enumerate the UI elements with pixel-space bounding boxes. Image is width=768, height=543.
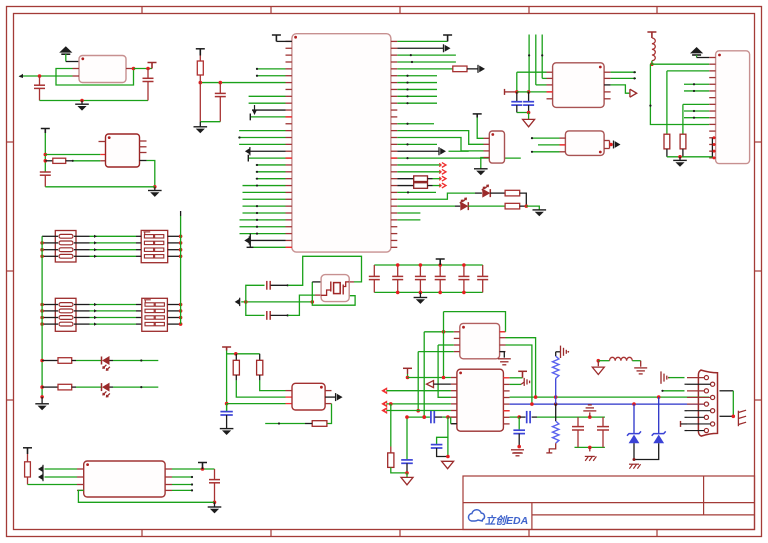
wire U8 loop — [444, 312, 506, 332]
chassis ground — [629, 463, 639, 465]
junction — [40, 359, 44, 363]
power flag VCC — [59, 46, 72, 52]
node — [406, 75, 408, 77]
mcu U4 — [292, 34, 391, 252]
ground — [194, 126, 208, 128]
wire R6 bottom lead — [235, 375, 237, 380]
ground — [208, 506, 222, 508]
wire top vertical — [541, 35, 543, 79]
wire — [250, 150, 286, 152]
pin U8 right — [500, 344, 506, 346]
crystal X1 symbol — [330, 282, 332, 292]
border tick bottom — [270, 530, 272, 537]
wire gnd stem — [679, 157, 681, 161]
wire — [685, 383, 688, 385]
wire — [397, 75, 437, 77]
wire — [433, 185, 442, 187]
wire U9 r2 — [510, 383, 521, 385]
wire LED A feed — [397, 193, 475, 199]
capacitor C7 — [266, 311, 268, 320]
junction — [438, 291, 442, 295]
capacitor C15 blue — [513, 429, 525, 431]
wire — [520, 193, 527, 206]
wire — [468, 205, 505, 207]
junction — [588, 446, 592, 450]
wire — [397, 54, 456, 56]
wire row into RN — [136, 323, 141, 325]
wire — [681, 423, 688, 425]
wire C8 bottom lead — [226, 415, 228, 429]
crystal X1 box — [321, 275, 349, 302]
pin U2.1 — [99, 141, 106, 143]
wire — [45, 476, 78, 478]
wire xtal up branch — [246, 285, 265, 302]
wire U4.1 — [276, 40, 292, 42]
pin J1 — [709, 90, 715, 92]
pin J1 — [709, 103, 715, 105]
junction — [40, 316, 44, 320]
net flag — [403, 367, 412, 369]
border tick bottom — [528, 530, 530, 537]
wire shell b — [720, 415, 734, 417]
pin U8 left — [454, 351, 460, 353]
wire row into RN — [136, 249, 141, 251]
wire — [239, 130, 285, 132]
wire — [589, 447, 591, 451]
wire — [542, 77, 546, 79]
pin U6 right — [604, 77, 611, 79]
pin U9 left — [451, 383, 457, 385]
junction — [234, 352, 238, 356]
wire vC — [438, 345, 451, 397]
wire row into RN — [136, 310, 141, 312]
wire — [528, 113, 530, 120]
pin J1 — [709, 63, 715, 65]
net flag — [436, 258, 445, 260]
wire — [450, 417, 452, 424]
pin J1 — [709, 57, 715, 59]
wire — [113, 386, 158, 388]
resistor R — [505, 203, 520, 209]
node arrow — [94, 323, 97, 326]
node — [278, 422, 280, 424]
pin lead — [448, 416, 457, 418]
pin U4 right — [391, 246, 397, 248]
pin J1 — [709, 157, 715, 159]
wire — [526, 206, 539, 210]
wire — [397, 178, 413, 180]
junction — [179, 322, 183, 326]
title block outline — [463, 476, 755, 530]
wire R1 right lead — [66, 160, 74, 162]
node — [191, 483, 193, 485]
resistor R1 — [53, 158, 66, 163]
wire — [76, 360, 102, 362]
zener D5 — [627, 431, 641, 435]
capacitor C12 blue — [430, 411, 432, 423]
earth ground rotated — [660, 371, 662, 383]
pin U3 right — [165, 489, 172, 491]
junction — [678, 155, 682, 159]
ground — [148, 190, 162, 192]
wire U3 out1 — [172, 468, 215, 470]
thermistor RT1 — [553, 356, 559, 378]
wire — [475, 192, 482, 194]
wire row into RN — [136, 242, 141, 244]
node hook — [19, 74, 23, 78]
node arrow — [94, 241, 97, 244]
earth ground — [498, 358, 511, 360]
node — [256, 164, 258, 166]
junction — [44, 153, 48, 157]
pin U4 left — [286, 198, 292, 200]
wire gnd pin — [712, 143, 715, 145]
earth extra bar — [512, 452, 523, 454]
junction — [179, 316, 183, 320]
port arrow — [38, 474, 43, 480]
pin text — [503, 410, 509, 412]
wire row mid green — [90, 242, 137, 244]
ground — [414, 297, 428, 299]
junction — [179, 254, 183, 258]
junction — [40, 254, 44, 258]
pin U4 right — [391, 40, 397, 42]
pin U9 right — [503, 416, 509, 418]
wire row mid green — [90, 317, 137, 319]
wire C10 lead — [528, 105, 530, 112]
junction — [442, 330, 446, 334]
resistor R3 — [197, 61, 203, 75]
pin text — [500, 331, 506, 333]
pin U4 right — [391, 157, 397, 159]
power flag gnd — [523, 119, 535, 126]
pin U4 left — [286, 212, 292, 214]
wire R to LED — [72, 386, 76, 388]
junction — [462, 263, 466, 267]
border tick right — [755, 399, 762, 401]
net flag — [443, 34, 452, 36]
wire cap gnd link — [517, 112, 529, 114]
pin U4 left — [286, 82, 292, 84]
resistor RN1.2 — [59, 241, 73, 245]
wire — [172, 489, 193, 491]
net flag bar — [504, 89, 506, 95]
net flag — [222, 346, 231, 348]
junction — [40, 303, 44, 307]
wire down — [447, 417, 449, 456]
wire C10 lead — [528, 92, 530, 102]
ic U6 — [553, 63, 605, 108]
port arrow — [335, 393, 337, 401]
junction — [405, 471, 409, 475]
wire shell — [720, 390, 734, 392]
wire — [538, 144, 560, 146]
wire row right — [168, 249, 181, 251]
junction — [438, 263, 442, 267]
ground — [35, 403, 49, 405]
node — [287, 314, 289, 316]
wire U6.1 — [517, 71, 547, 73]
wire C1 top lead — [39, 76, 41, 85]
wire — [685, 410, 688, 412]
wire shell v — [732, 391, 734, 417]
junction — [527, 90, 531, 94]
port arrow — [477, 65, 479, 73]
port arrow — [438, 147, 440, 155]
node — [406, 157, 408, 159]
wire — [532, 416, 537, 418]
border tick bottom — [141, 530, 143, 537]
pin J1 — [709, 123, 715, 125]
node arrow — [94, 303, 97, 306]
border tick top — [528, 7, 530, 14]
pin U2.3 — [100, 160, 105, 162]
pin U4 right — [391, 205, 397, 207]
pin J2.7 — [704, 415, 708, 419]
pin U4 left — [286, 191, 292, 193]
pin U4 left — [286, 233, 292, 235]
pin U2.2 — [100, 154, 105, 156]
wire C15 net — [518, 417, 520, 430]
wire U6 r3 — [604, 84, 611, 86]
wire gnd stem — [154, 187, 156, 191]
wire gnd stem — [81, 101, 83, 105]
wire xtal main — [241, 301, 312, 303]
wire gnd stem — [419, 292, 421, 297]
wire cap rail top — [374, 264, 482, 266]
pin U4 left — [286, 246, 292, 248]
ground — [533, 209, 547, 211]
junction — [530, 402, 534, 406]
wire xtal top loop — [288, 256, 362, 285]
capacitor C5 — [215, 92, 226, 94]
resistor RN1.1 — [59, 234, 73, 238]
wire R10 bottom — [682, 149, 684, 157]
junction — [201, 467, 205, 471]
wire cap lead — [463, 280, 465, 293]
wire row mid1 — [74, 304, 90, 306]
pin U5 — [484, 137, 490, 139]
border tick left — [7, 141, 14, 143]
resistor RN3.1 — [59, 303, 73, 307]
wire — [598, 360, 609, 362]
wire gnd link — [667, 156, 713, 158]
wire bottom loop — [78, 490, 214, 502]
wire to U2 — [44, 133, 46, 172]
wire — [397, 82, 437, 84]
ground — [474, 168, 488, 170]
wire — [270, 284, 288, 286]
pin U4 left — [286, 102, 292, 104]
wire — [611, 85, 630, 93]
wire — [397, 123, 434, 125]
pin U6 left — [547, 84, 553, 86]
node — [256, 226, 258, 228]
node — [406, 143, 408, 145]
ic U7 — [565, 131, 604, 156]
pin U9 left — [451, 423, 457, 425]
wire R6 top lead — [235, 354, 237, 361]
junction — [657, 395, 661, 399]
wire U5 stair1 — [397, 131, 483, 145]
wire row mid green — [90, 235, 137, 237]
wire — [250, 239, 285, 241]
wire R3 top lead — [199, 56, 201, 62]
pin U4 right — [391, 185, 397, 187]
wire top vertical — [528, 35, 530, 92]
node — [406, 81, 408, 83]
node — [238, 136, 240, 138]
wire cap lead — [373, 280, 375, 293]
node — [256, 171, 258, 173]
pin U9 right — [503, 423, 509, 425]
junction — [389, 402, 393, 406]
wire — [256, 171, 286, 173]
pin U4 right — [391, 88, 397, 90]
node arrow — [94, 309, 97, 312]
wire R1 to U2 — [74, 160, 101, 162]
pin U4 right — [391, 178, 397, 180]
wire — [397, 219, 420, 221]
wire row left — [42, 255, 58, 257]
wire — [243, 198, 286, 200]
wire — [442, 416, 448, 418]
wire — [490, 192, 505, 194]
power flag — [401, 477, 413, 484]
capacitor C — [435, 275, 446, 277]
title block divider h1 — [463, 502, 755, 504]
wire row mid green — [90, 323, 137, 325]
wire C11 lead — [406, 463, 408, 473]
pin J2.9 — [704, 428, 708, 432]
pin U3 left — [77, 476, 84, 478]
wire U1 pin1 — [66, 61, 79, 63]
junction — [632, 402, 636, 406]
LED D3 — [482, 189, 490, 198]
capacitor C — [477, 275, 488, 277]
resistor R10 — [680, 134, 686, 149]
wire R6 to Q1 — [236, 380, 285, 397]
node — [287, 284, 289, 286]
pin U8 left — [454, 337, 460, 339]
node — [72, 160, 74, 162]
logo LCEDA — [468, 510, 528, 527]
border tick right — [755, 141, 762, 143]
LED D — [101, 383, 103, 391]
wire zig1 top — [555, 352, 557, 356]
pin U4 left — [286, 123, 292, 125]
pin J2.4 — [711, 395, 715, 399]
wire row right — [168, 317, 181, 319]
pin U4 right — [391, 226, 397, 228]
wire LED B — [397, 205, 455, 207]
wire — [250, 246, 285, 248]
pin J1 — [709, 77, 715, 79]
pin U4 right — [391, 116, 397, 118]
net port — [442, 176, 446, 181]
junction — [597, 359, 601, 363]
pin U4 left — [286, 226, 292, 228]
wire zig1 bottom — [555, 378, 557, 404]
capacitor C16 — [572, 426, 584, 428]
node — [191, 476, 193, 478]
pin U6 right4 — [604, 91, 611, 93]
wire c17 lead2 — [602, 430, 604, 447]
junction — [311, 300, 315, 304]
junction — [446, 455, 450, 459]
wire vcc bus — [226, 351, 228, 412]
wire right bus top — [180, 216, 182, 236]
pin U4 left — [286, 88, 292, 90]
wire box top — [575, 416, 605, 418]
wire R8 out — [265, 423, 305, 425]
wire — [406, 473, 408, 478]
wire U8r2 — [506, 338, 536, 397]
pin text — [286, 116, 292, 118]
junction — [396, 263, 400, 267]
regulator U1 — [79, 56, 126, 83]
node — [406, 88, 408, 90]
wire — [696, 55, 698, 58]
wire C9 lead — [516, 92, 518, 102]
wire — [397, 164, 441, 166]
capacitor C13 blue — [431, 444, 443, 446]
pin U4 left — [286, 116, 292, 118]
border tick left — [7, 399, 14, 401]
pin U4 right — [391, 95, 397, 97]
capacitor C17 — [597, 426, 609, 428]
wire — [518, 434, 520, 447]
wire — [256, 75, 286, 77]
pin U8 left — [454, 331, 460, 333]
junction — [40, 309, 44, 313]
resistor R7 — [257, 360, 263, 375]
border tick bottom — [656, 530, 658, 537]
earth ground rotated — [560, 346, 562, 358]
pin U4 right — [391, 212, 397, 214]
pin Q1.r1 — [325, 390, 331, 392]
net flag bar — [680, 421, 682, 427]
ground — [220, 428, 234, 430]
net flag VCC2 — [41, 128, 50, 130]
wire — [520, 205, 527, 207]
wire z2 net — [658, 397, 660, 434]
wire c17 lead — [602, 417, 604, 427]
port arrow — [244, 237, 249, 243]
node — [633, 71, 635, 73]
pin U4 right — [391, 233, 397, 235]
pin U4 right — [391, 61, 397, 63]
capacitor C9 blue — [511, 101, 522, 103]
junction — [713, 143, 716, 146]
wire vA — [423, 332, 425, 417]
node — [528, 54, 530, 56]
wire — [172, 476, 193, 478]
wire — [684, 90, 709, 92]
wire to R — [42, 360, 58, 362]
wire row right — [168, 242, 181, 244]
border tick top — [141, 7, 143, 14]
pin U4 left — [286, 130, 292, 132]
capacitor C — [458, 275, 469, 277]
wire row right — [168, 235, 181, 237]
junction — [650, 62, 654, 66]
wire R9 bottom — [666, 149, 668, 157]
resistor RN1.3 — [59, 248, 73, 252]
wire xtal down branch — [246, 302, 265, 316]
wire — [433, 178, 442, 180]
resistor R11 — [388, 453, 394, 468]
